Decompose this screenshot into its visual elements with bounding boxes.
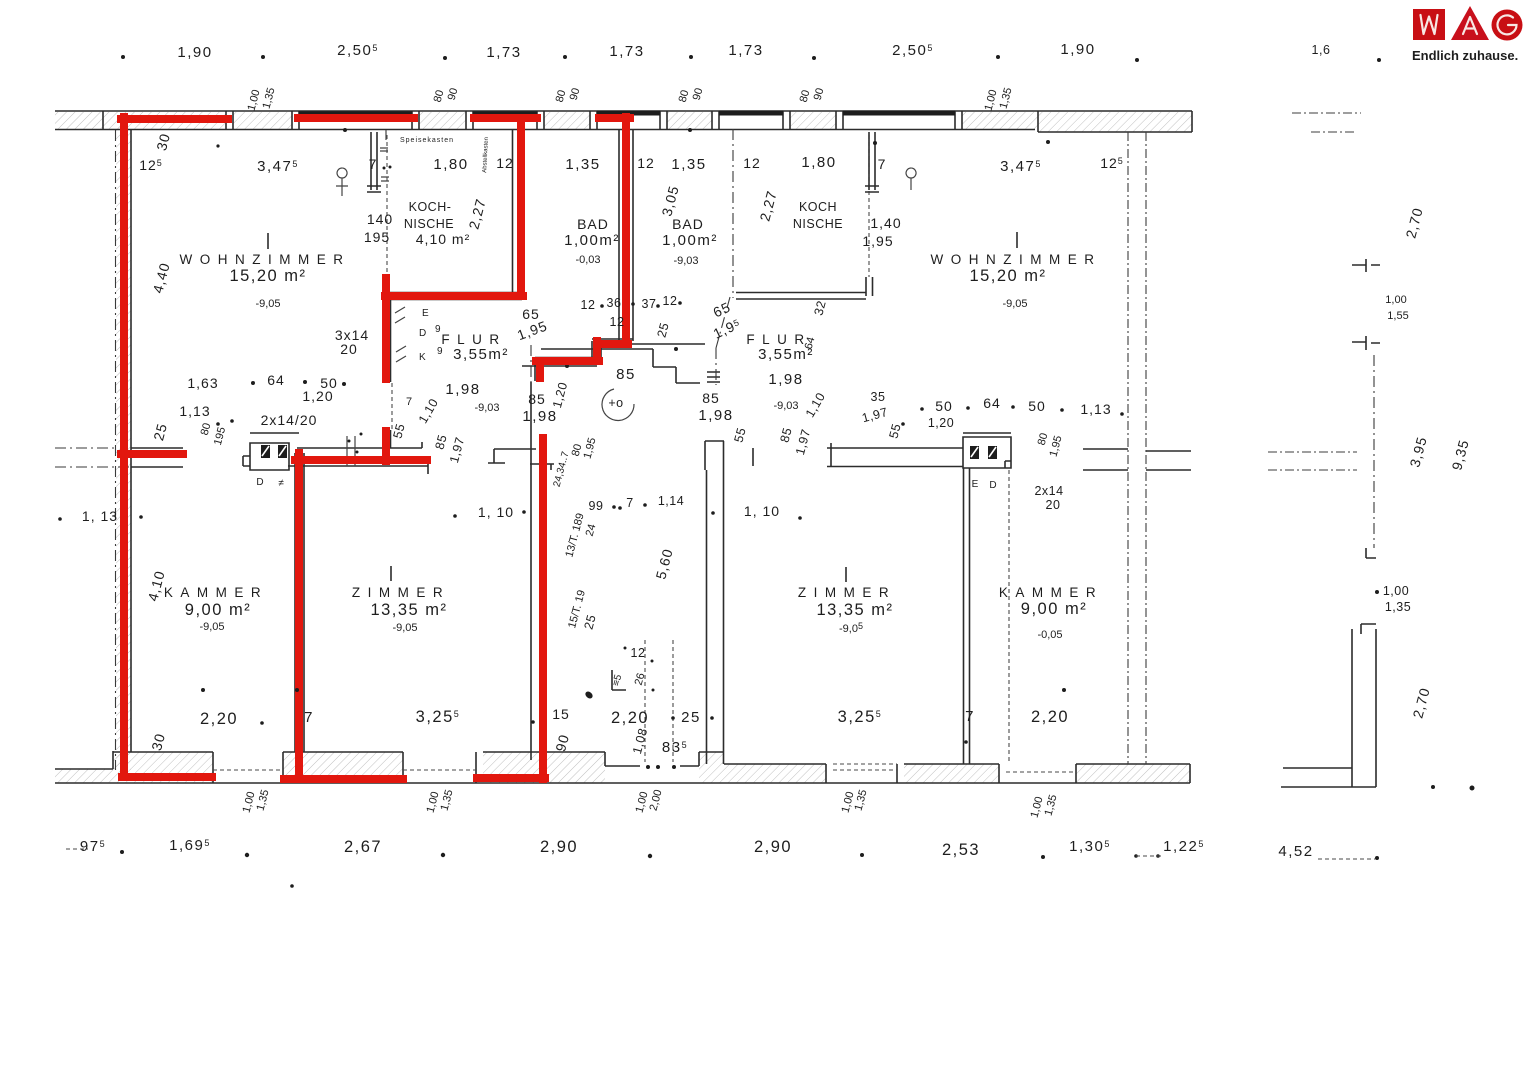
svg-text:25: 25 <box>681 709 701 726</box>
svg-text:7: 7 <box>878 156 887 172</box>
svg-text:85: 85 <box>528 391 546 407</box>
svg-text:37: 37 <box>642 297 657 311</box>
svg-text:1,40: 1,40 <box>870 215 901 231</box>
svg-text:13,35 m²: 13,35 m² <box>816 601 893 619</box>
svg-text:1,95: 1,95 <box>862 233 893 249</box>
svg-text:NISCHE: NISCHE <box>793 217 843 231</box>
svg-text:ZIMMER: ZIMMER <box>798 585 896 600</box>
svg-text:1,98: 1,98 <box>522 408 557 425</box>
svg-text:12: 12 <box>743 155 761 171</box>
dash-dot through middle (speise) <box>391 383 393 430</box>
svg-text:2,90: 2,90 <box>540 838 578 856</box>
square W <box>1413 9 1445 40</box>
svg-text:1,90: 1,90 <box>177 44 212 61</box>
right ZIMMER/KAMMER wall <box>964 468 970 764</box>
top wall outer edge <box>55 110 1192 112</box>
svg-text:2,67: 2,67 <box>344 838 382 856</box>
middle wall left: under red to ZIMMER door <box>288 442 428 474</box>
BAD bottoms + stair landing jogs left <box>522 339 633 381</box>
svg-text:1, 13: 1, 13 <box>82 508 118 524</box>
svg-text:7: 7 <box>406 396 412 408</box>
bottom-left stub <box>55 751 113 769</box>
svg-text:12: 12 <box>581 298 596 312</box>
top wall inner edge left part <box>55 129 1035 131</box>
svg-text:E: E <box>972 479 979 490</box>
right middle wall right piece <box>1083 449 1191 470</box>
svg-text:3,255: 3,255 <box>416 708 461 726</box>
svg-text:64: 64 <box>983 395 1001 411</box>
BAD left wall (under red) <box>513 130 520 296</box>
svg-text:9,00 m²: 9,00 m² <box>1021 600 1087 618</box>
svg-text:BAD: BAD <box>577 216 609 232</box>
svg-text:2,90: 2,90 <box>754 838 792 856</box>
door jamb hatches left FLUR / WOHNZIMMER door <box>395 307 406 362</box>
svg-text:85: 85 <box>616 366 636 383</box>
stair landing jogs right (mirror) <box>541 344 705 383</box>
svg-text:Endlich zuhause.: Endlich zuhause. <box>1412 48 1518 63</box>
svg-text:1,20: 1,20 <box>302 388 333 404</box>
middle wall left apartment <box>55 448 131 467</box>
svg-text:99: 99 <box>589 499 604 513</box>
svg-text:+o: +o <box>608 396 623 410</box>
svg-text:NISCHE: NISCHE <box>404 217 454 231</box>
svg-text:12: 12 <box>610 315 625 329</box>
circle G <box>1492 10 1523 41</box>
WOHNZIMMER/KOCH stub (right) <box>868 135 870 277</box>
svg-text:2x14/20: 2x14/20 <box>261 412 318 428</box>
svg-text:7: 7 <box>304 709 314 726</box>
svg-text:-9,05: -9,05 <box>392 622 417 634</box>
svg-text:1,73: 1,73 <box>728 42 763 59</box>
svg-text:195: 195 <box>364 229 390 245</box>
triangle A <box>1451 6 1489 40</box>
room name pointer ticks <box>268 232 1017 582</box>
44 tick marks near left zimmer door <box>347 436 355 466</box>
svg-text:FLUR: FLUR <box>746 332 811 347</box>
svg-text:12: 12 <box>637 155 655 171</box>
svg-text:1,14: 1,14 <box>658 494 684 508</box>
svg-text:1,73: 1,73 <box>486 44 521 61</box>
svg-text:7: 7 <box>626 496 633 510</box>
left outer wall <box>115 130 117 770</box>
svg-text:-9,03: -9,03 <box>773 400 798 412</box>
top wall neighbour dashes right <box>1292 113 1361 132</box>
svg-text:WOHNZIMMER: WOHNZIMMER <box>931 252 1102 267</box>
svg-text:-9,03: -9,03 <box>474 402 499 414</box>
svg-text:1,90: 1,90 <box>1060 41 1095 58</box>
svg-text:1,20: 1,20 <box>928 416 954 430</box>
thick window bars top <box>299 113 955 114</box>
svg-text:-0,05: -0,05 <box>1037 629 1062 641</box>
svg-text:-9,05: -9,05 <box>199 621 224 633</box>
svg-text:3,255: 3,255 <box>838 708 883 726</box>
svg-text:KAMMER: KAMMER <box>999 585 1103 600</box>
svg-text:-9,05: -9,05 <box>1002 298 1027 310</box>
KAMMER/ZIMMER wall (under red) <box>295 453 304 752</box>
svg-text:-9,05: -9,05 <box>255 298 280 310</box>
svg-text:1,98: 1,98 <box>768 371 803 388</box>
svg-text:1,13: 1,13 <box>1080 401 1111 417</box>
FLUR north wall left (under red) <box>385 293 522 300</box>
svg-text:15: 15 <box>552 706 570 722</box>
small ticks under window W1 right end <box>380 130 389 181</box>
svg-text:K: K <box>419 352 426 363</box>
stair flight <box>645 640 673 762</box>
svg-text:1,00: 1,00 <box>1383 584 1409 598</box>
WOHNZIMMER/KOCH stub (left) <box>386 135 388 277</box>
svg-text:12: 12 <box>631 646 646 660</box>
right edge double dashed verticals <box>1128 132 1146 764</box>
svg-text:36: 36 <box>607 296 622 310</box>
svg-text:1,80: 1,80 <box>433 156 468 173</box>
svg-text:2,20: 2,20 <box>200 710 238 728</box>
svg-text:1, 10: 1, 10 <box>478 504 514 520</box>
svg-text:1,63: 1,63 <box>187 375 218 391</box>
small circle-cross marks <box>336 168 348 196</box>
svg-text:7: 7 <box>369 156 378 172</box>
svg-text:1,35: 1,35 <box>565 156 600 173</box>
ZIMMER left top-right jamb <box>488 449 554 470</box>
svg-text:1,73: 1,73 <box>609 43 644 60</box>
svg-text:WOHNZIMMER: WOHNZIMMER <box>180 252 351 267</box>
svg-text:D: D <box>419 328 426 339</box>
svg-text:-0,03: -0,03 <box>575 254 600 266</box>
window ticks top wall <box>226 111 962 130</box>
svg-text:BAD: BAD <box>672 216 704 232</box>
svg-text:-9,03: -9,03 <box>673 255 698 267</box>
svg-text:20: 20 <box>1046 498 1061 512</box>
svg-text:140: 140 <box>367 211 393 227</box>
svg-text:20: 20 <box>340 341 358 357</box>
svg-text:1,80: 1,80 <box>801 154 836 171</box>
svg-text:1,98: 1,98 <box>445 381 480 398</box>
svg-text:Speisekasten: Speisekasten <box>400 137 454 144</box>
svg-text:12: 12 <box>496 155 514 171</box>
svg-text:1,35: 1,35 <box>1385 600 1411 614</box>
far right annex <box>1373 355 1375 548</box>
svg-text:12: 12 <box>663 294 678 308</box>
entrance door dots <box>646 765 650 769</box>
wardrobe left <box>243 433 299 470</box>
right wardrobe <box>963 433 1011 468</box>
svg-text:2,20: 2,20 <box>611 709 649 727</box>
svg-text:2x14: 2x14 <box>1034 484 1063 498</box>
right middle wall <box>753 443 963 467</box>
svg-text:1,55: 1,55 <box>1387 310 1408 322</box>
bottom outer wall <box>55 782 1190 784</box>
circled +o near entrance <box>602 389 634 420</box>
svg-text:35: 35 <box>871 390 886 404</box>
koch window stubs below top wall <box>367 132 381 192</box>
svg-text:50: 50 <box>935 398 953 414</box>
svg-text:9: 9 <box>437 346 443 357</box>
svg-text:85: 85 <box>702 390 720 406</box>
svg-text:1, 10: 1, 10 <box>744 503 780 519</box>
FLUR north wall right <box>736 293 866 300</box>
stair right wall <box>705 441 724 764</box>
svg-text:9,00 m²: 9,00 m² <box>185 601 251 619</box>
svg-text:9: 9 <box>435 324 441 335</box>
svg-text:1,13: 1,13 <box>179 403 210 419</box>
svg-text:1,98: 1,98 <box>698 407 733 424</box>
BAD center wall (under red) <box>619 130 633 341</box>
svg-text:1,6: 1,6 <box>1312 43 1331 57</box>
top dimension row <box>121 55 125 59</box>
bottom inner wall segments <box>113 752 724 783</box>
svg-text:FLUR: FLUR <box>441 332 506 347</box>
svg-text:≠: ≠ <box>278 478 284 489</box>
svg-text:13,35 m²: 13,35 m² <box>370 601 447 619</box>
svg-text:50: 50 <box>1028 398 1046 414</box>
svg-text:1,35: 1,35 <box>671 156 706 173</box>
svg-text:E: E <box>422 308 429 319</box>
svg-text:1,00m²: 1,00m² <box>564 232 620 249</box>
svg-text:3,55m²: 3,55m² <box>453 346 509 363</box>
svg-text:KAMMER: KAMMER <box>164 585 268 600</box>
svg-text:D: D <box>989 480 996 491</box>
extra small marks <box>103 111 1050 148</box>
svg-text:64: 64 <box>267 372 285 388</box>
svg-text:2,53: 2,53 <box>942 841 980 859</box>
BAD right wall (right apt) <box>732 129 734 298</box>
svg-text:ZIMMER: ZIMMER <box>352 585 450 600</box>
svg-text:KOCH: KOCH <box>799 200 837 214</box>
stairwell left wall <box>531 382 546 760</box>
svg-text:4,52: 4,52 <box>1278 843 1313 860</box>
bottom window dashes <box>213 764 1076 772</box>
top wall jog right <box>1038 111 1192 132</box>
svg-text:15,20 m²: 15,20 m² <box>229 267 306 285</box>
svg-text:2,20: 2,20 <box>1031 708 1069 726</box>
svg-text:1,00m²: 1,00m² <box>662 232 718 249</box>
svg-text:KOCH-: KOCH- <box>409 200 452 214</box>
svg-text:15,20 m²: 15,20 m² <box>969 267 1046 285</box>
svg-text:D: D <box>256 477 263 488</box>
svg-text:7: 7 <box>965 708 975 725</box>
svg-text:1,00: 1,00 <box>1385 294 1406 306</box>
svg-text:4,10 m²: 4,10 m² <box>416 231 470 247</box>
